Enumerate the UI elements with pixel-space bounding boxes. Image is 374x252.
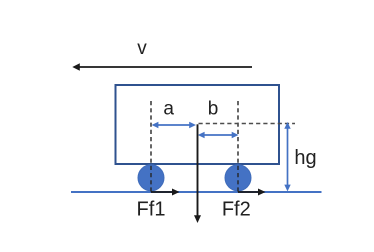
weight force arrow (center of gravity, pointing down) [194, 124, 201, 223]
svg-text:b: b [208, 99, 219, 120]
car body rectangle [116, 85, 280, 164]
svg-text:Ff2: Ff2 [222, 199, 251, 221]
velocity arrow v (pointing left) [72, 63, 252, 70]
friction force arrow Ff2 (pointing right) [238, 189, 266, 196]
dashed vertical axle line 1 (through front wheel) [150, 101, 152, 192]
dimension arrow b (double-headed) [198, 132, 239, 138]
dashed vertical axle line 2 (through rear wheel) [237, 101, 239, 192]
dashed horizontal line at center-of-gravity height [199, 123, 296, 125]
svg-text:hg: hg [294, 147, 316, 169]
svg-text:a: a [163, 99, 174, 120]
dimension arrow hg (double-headed vertical) [284, 122, 290, 191]
svg-text:v: v [137, 38, 147, 59]
wheel 2 (rear) [225, 165, 251, 191]
friction force arrow Ff1 (pointing right) [151, 189, 180, 196]
svg-text:Ff1: Ff1 [137, 199, 166, 221]
dimension arrow a (double-headed) [152, 122, 196, 128]
ground line [71, 191, 322, 193]
wheel 1 (front) [138, 165, 164, 191]
